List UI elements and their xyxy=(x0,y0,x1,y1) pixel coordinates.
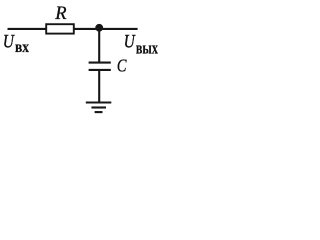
wire: capacitor to ground xyxy=(98,71,100,102)
wire: input lead xyxy=(8,28,47,30)
capacitor C top plate xyxy=(89,62,111,64)
svg-text:C: C xyxy=(117,56,127,76)
ground xyxy=(86,103,112,113)
wire: junction to output xyxy=(99,28,138,30)
svg-text:U: U xyxy=(124,31,136,52)
svg-text:вых: вых xyxy=(136,39,158,58)
wire: resistor to junction node xyxy=(74,28,99,30)
svg-text:U: U xyxy=(3,31,15,52)
svg-text:вх: вх xyxy=(15,39,29,56)
wire: junction down to capacitor xyxy=(98,28,100,63)
resistor R xyxy=(46,24,74,33)
node: junction dot xyxy=(95,24,103,32)
capacitor C bottom plate xyxy=(89,69,111,71)
svg-text:R: R xyxy=(54,4,66,24)
